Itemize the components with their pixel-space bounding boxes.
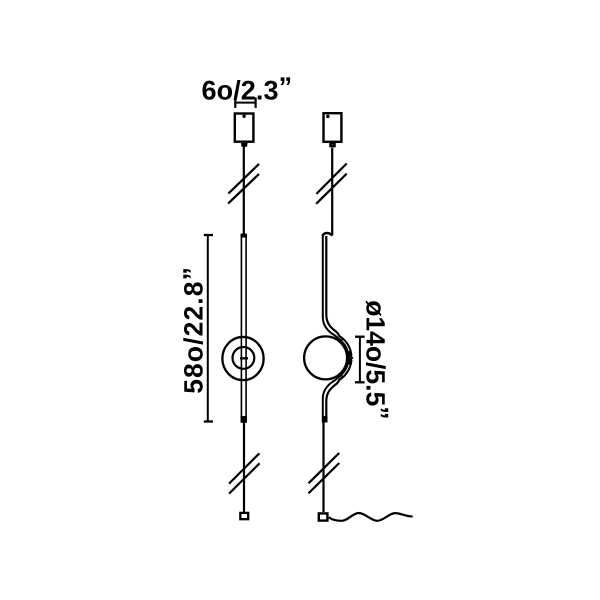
sphere circle side: [304, 336, 347, 379]
end square front: [240, 513, 248, 519]
dimension line 60mm: [234, 97, 256, 108]
canopy screw dot front: [242, 115, 245, 118]
sphere inner circle front: [233, 347, 255, 369]
band notch white wedge: [350, 353, 355, 362]
break symbol upper front: [228, 164, 259, 204]
svg-text:58o/22.8”: 58o/22.8”: [178, 266, 209, 394]
break symbol upper side: [316, 164, 347, 204]
wire lower side view: [322, 423, 324, 513]
end square side: [319, 513, 328, 520]
canopy nub front: [241, 143, 248, 147]
canopy screw dot side: [326, 115, 330, 119]
canopy nub side: [330, 144, 334, 147]
svg-text:6o/2.3”: 6o/2.3”: [202, 72, 293, 106]
band inner white sliver: [343, 340, 350, 351]
break symbol lower side: [309, 453, 340, 493]
canopy box front view: [235, 114, 254, 142]
blade outer edge side view: [326, 236, 351, 423]
wire upper side view: [331, 148, 333, 236]
lamp bar front view: [241, 235, 246, 423]
center dash: [240, 357, 248, 359]
power cable squiggle: [329, 513, 413, 521]
bar top cap: [241, 234, 247, 238]
blade inner edge side view: [323, 236, 349, 423]
wire lower front view: [243, 422, 245, 512]
wire upper front view: [243, 147, 245, 236]
dimension line 140mm: [355, 337, 365, 383]
sphere outer circle front: [222, 337, 263, 380]
canopy box side view: [324, 113, 342, 142]
band inner white sliver lower: [343, 365, 350, 376]
band pinch mark: [349, 355, 353, 361]
blade top hook side: [322, 233, 332, 236]
blade bottom cap side: [323, 416, 328, 423]
band fill sector: [340, 338, 351, 378]
break symbol lower front: [229, 453, 260, 493]
dimension line 580mm: [204, 235, 213, 422]
svg-text:ø14o/5.5”: ø14o/5.5”: [361, 300, 395, 419]
bar bottom cap: [241, 416, 247, 423]
